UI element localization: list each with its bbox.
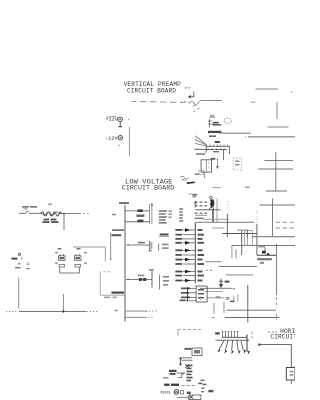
label row under A6 (208, 131, 222, 137)
wire v x=256.9 (dotted above, solid below) (256, 211, 258, 224)
arrow rows (175, 228, 195, 282)
board outline dash corner (178, 330, 201, 336)
A6 pin name rows (213, 122, 219, 124)
transistor Q (dark blob) on low voltage board (209, 199, 217, 223)
small box left of grid (245, 231, 253, 246)
mid cap group C? (126, 241, 169, 251)
stray solder specks below signal line (193, 102, 255, 112)
wire: pin bar 2 (195, 148, 227, 150)
tiny labels below pins (196, 151, 219, 155)
wire h y=274.9 (226, 274, 253, 276)
voltage list text column (159, 210, 167, 223)
small marks far bottom-left of cluster (201, 380, 205, 393)
potentiometer group R? (right) (75, 248, 88, 267)
distribution bus with arrows (x~195) (194, 222, 196, 283)
option box outline around filter caps (100, 272, 125, 296)
bottom connector box of bus (180, 286, 207, 302)
wire h y=169 (259, 168, 294, 170)
svg-text:+12V: +12V (106, 119, 119, 123)
v gray x=231.9 down (231, 246, 233, 259)
wire: drop to relay area (223, 149, 225, 160)
capacitor C? stub with arrow (216, 159, 218, 169)
test point -12V (105, 136, 123, 148)
stubs x=214, x=224 (213, 303, 215, 314)
wire v x=272.5 (272, 199, 274, 237)
v x=236 down (235, 249, 237, 258)
relay K1 box (201, 158, 215, 178)
connector arrow J (preamp output) (185, 87, 194, 98)
wire h y=127 (268, 126, 289, 128)
connector A6 pin cluster (208, 119, 212, 128)
D ref text (230, 301, 235, 303)
wire v corner x=105.3 (104, 247, 106, 261)
wire h y=230.1 (237, 229, 248, 231)
speck near right edge (291, 91, 292, 92)
wire h y=205 (260, 204, 296, 206)
test point +12V (106, 116, 130, 127)
wire h y=160.6 (265, 160, 294, 162)
right-side caps on bus (198, 229, 205, 282)
GND label (159, 234, 169, 237)
wire h y=209.8 (195, 209, 220, 211)
label L.V. (112, 229, 124, 231)
wire h y=89 (256, 88, 279, 90)
filter caps C? top pair (112, 203, 153, 224)
bottom label (112, 292, 125, 294)
connector P bottom (fan-out) (215, 331, 252, 354)
wire: long interconnect to right edge (248, 136, 295, 138)
up-arrow test point in regulator grid (194, 201, 196, 207)
wire v x=275.8 mid (275, 152, 277, 192)
wire: test point bus (128, 127, 130, 156)
component grid rows (regulator section) (195, 202, 208, 214)
wire h y=317.5 (212, 317, 215, 319)
left edge dashes near x=0 (200, 296, 202, 300)
wire: long interconnect to horiz board (upper) (220, 132, 252, 134)
wire h y=266.5 (219, 266, 257, 268)
svg-text:CIRCUIT BOARD: CIRCUIT BOARD (127, 88, 176, 95)
pin ticks with dots (223, 333, 238, 338)
h y=245.5 (231, 245, 295, 247)
tiny ref text pair left of bus labels (169, 211, 173, 212)
small switch S? far left (11, 253, 30, 269)
ground bus bottom-left (6, 278, 98, 313)
wire v x=277 upper (276, 102, 278, 119)
title: HORIZ CIRCUIT (cut off right) (268, 328, 299, 341)
title: VERTICAL PREAMP CIRCUIT BOARD (124, 81, 182, 95)
svg-text:CIRCUIT: CIRCUIT (270, 333, 295, 340)
dotted v x=228 above (227, 202, 229, 214)
gray h y=236.6 long (252, 236, 295, 238)
harness fan from left (4 wires) (195, 136, 207, 150)
pin ticks and dots (210, 145, 228, 147)
X transistor mark (185, 364, 189, 367)
connector eyelets (circles) (210, 196, 212, 198)
board outline corner bottom (low voltage board) (115, 310, 157, 318)
parallel gray line above bus (203, 218, 229, 220)
small connector box top (199, 170, 204, 174)
cable squiggle right of title (181, 176, 221, 196)
drop from line (63, 214, 65, 230)
wire v x=213.6 (213, 208, 215, 223)
main LV bus vertical x=125 (119, 202, 129, 322)
tiny ref text (195, 174, 199, 176)
svg-text:-12V: -12V (105, 138, 118, 142)
wire h y=191 (266, 190, 287, 192)
junction vline (205, 144, 207, 153)
lower cap group C? (126, 269, 169, 290)
wire to horiz board box (259, 344, 292, 368)
svg-text:CIRCUIT BOARD: CIRCUIT BOARD (122, 185, 175, 192)
wire: pin bar 1 (206, 145, 230, 147)
label above pin bar (215, 141, 220, 143)
cap pair under box (182, 358, 193, 360)
wire h y=233.5 (222, 233, 257, 235)
wire h y=288 (200, 287, 232, 289)
text row C10.. (164, 383, 206, 386)
label cluster TP (169, 370, 177, 375)
wire v x=241.7 (241, 231, 243, 255)
potentiometer group R? (left) (55, 248, 65, 267)
dark bar y=218.2 (195, 217, 204, 219)
connector P? with box (184, 348, 202, 356)
bracket component (178, 374, 185, 378)
wire v x=110.7 from L.V. label (110, 233, 112, 260)
wire h y=309.5 (227, 309, 277, 311)
main gray bus y=222.3 (196, 221, 254, 223)
transformer T1 winding scribble (41, 212, 62, 216)
wire v x=248 (center, down to bottom area) (247, 285, 249, 323)
wire v x=247.4 (246, 230, 248, 238)
stub v x=237.8 (237, 294, 239, 302)
dashed line y=385.5 (182, 385, 197, 387)
transistor Q (circle) bottom (161, 390, 214, 400)
note oval (dashed) (224, 118, 231, 123)
wire v x=276.6 lower (276, 244, 278, 295)
label column left of regulator grid (179, 208, 183, 221)
wire: vertical signal output (dash-dot with coax squiggle) (132, 100, 223, 104)
dashed v x=276.3 (275, 297, 277, 308)
dots row y=270 (206, 270, 212, 271)
wire: vertical stub (229, 146, 231, 154)
svg-text:A6: A6 (210, 115, 215, 119)
sweep trigger pickoff box with transistor (257, 246, 277, 264)
zener diode with arrow (219, 279, 229, 287)
fuse / power input left (19, 204, 90, 230)
stub y=187 (245, 186, 250, 188)
horiz board connector box (286, 368, 295, 385)
dashed option box (233, 158, 241, 170)
wire h y=261.7 (gray stub) (205, 261, 222, 263)
svg-text:R1019: R1019 (161, 391, 171, 395)
dash bus y=228 (212, 227, 225, 229)
wire h y=291.5 (205, 291, 223, 293)
dash continuation y=222.5 (276, 221, 294, 223)
tiny ref text top-left of Q (192, 194, 197, 196)
small column 13 (187, 365, 193, 382)
bracket under pots (60, 268, 80, 274)
vertical bus x=227.3 (226, 214, 228, 237)
wire h y=247.3 (to pots) (73, 246, 105, 248)
dash marks right of header (251, 332, 253, 335)
title: LOW VOLTAGE CIRCUIT BOARD (122, 179, 175, 192)
resistor string with dots (180, 357, 182, 365)
wire h y=215.2 (195, 214, 207, 216)
